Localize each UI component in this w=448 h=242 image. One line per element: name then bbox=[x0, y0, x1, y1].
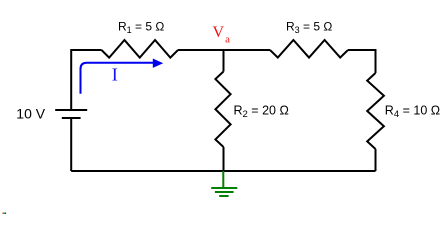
wire: battery negative down to bottom-left corner bbox=[70, 119, 72, 171]
wire: left-top segment from battery positive up and right to R1 bbox=[71, 50, 101, 110]
current arrow I (blue) bbox=[81, 59, 164, 94]
svg-text:10 V: 10 V bbox=[16, 106, 45, 122]
svg-text:Va: Va bbox=[213, 24, 231, 46]
wire: R4 to bottom-right corner bbox=[375, 149, 377, 171]
stray pixel artifact bottom-left bbox=[3, 213, 7, 215]
svg-text:R4 = 10 Ω: R4 = 10 Ω bbox=[385, 103, 440, 120]
svg-text:R2 = 20 Ω: R2 = 20 Ω bbox=[234, 103, 289, 120]
wire: R3 to top-right corner down to R4 bbox=[348, 50, 376, 73]
resistor R1 = 5 ohm (zigzag + label) bbox=[102, 20, 179, 58]
svg-text:R1 = 5 Ω: R1 = 5 Ω bbox=[118, 20, 164, 36]
resistor R3 = 5 ohm (zigzag + label) bbox=[270, 20, 348, 58]
wire: bottom right segment from ground node to right corner bbox=[224, 170, 376, 172]
wire: R1 to node Va bbox=[178, 49, 224, 51]
wire: bottom left segment to ground node bbox=[71, 170, 223, 172]
svg-text:R3 = 5 Ω: R3 = 5 Ω bbox=[286, 20, 332, 36]
resistor R2 = 20 ohm (vertical zigzag + label) bbox=[215, 72, 288, 148]
svg-text:I: I bbox=[112, 64, 118, 84]
resistor R4 = 10 ohm (vertical zigzag + label) bbox=[367, 73, 440, 149]
wire: node Va to R3 bbox=[224, 49, 271, 51]
voltage source 10 V (battery plates + label) bbox=[16, 106, 87, 122]
ground symbol (green) bbox=[211, 171, 237, 196]
wire: node Va down to R2 bbox=[223, 50, 225, 72]
wire: R2 to bottom wire bbox=[223, 147, 225, 171]
